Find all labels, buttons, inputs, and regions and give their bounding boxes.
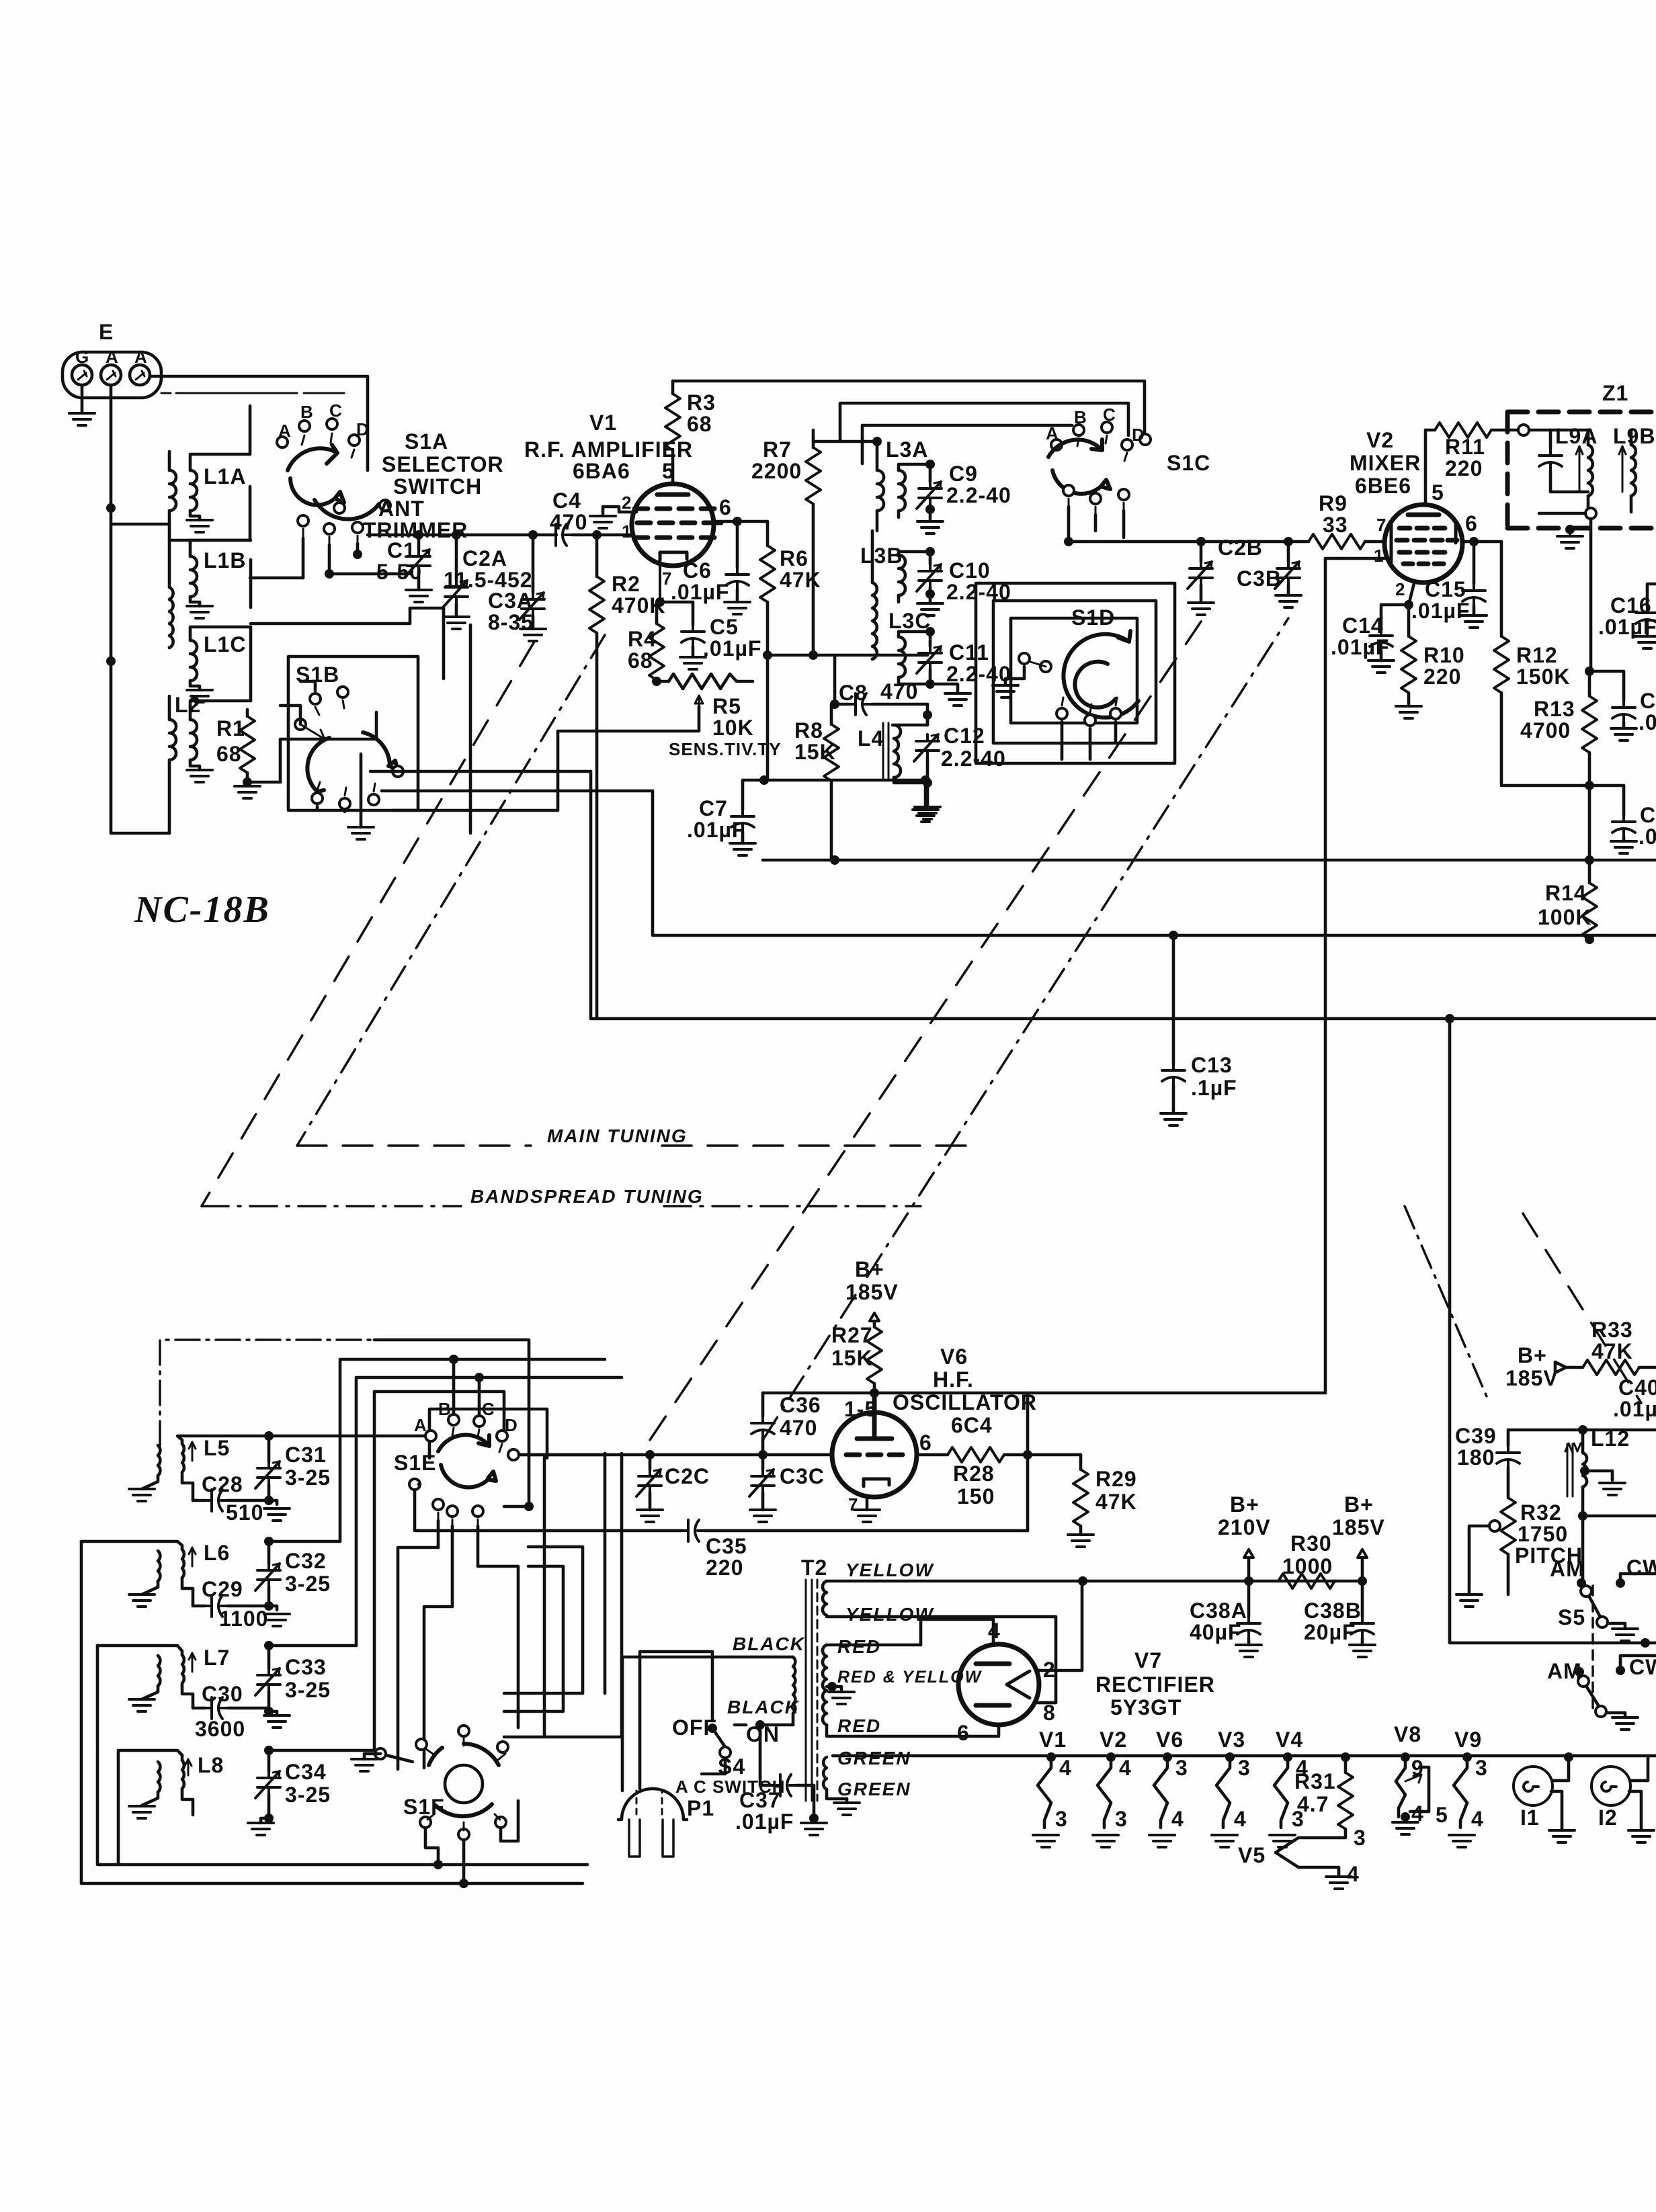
T2 primary winding bbox=[622, 1657, 795, 1725]
svg-text:C38A: C38A bbox=[1190, 1599, 1247, 1623]
trimmer C33 3-25 bbox=[267, 1646, 271, 1668]
link diag from C2A bbox=[202, 642, 534, 1206]
svg-text:RED: RED bbox=[837, 1636, 881, 1657]
selector switch S1A bbox=[277, 400, 390, 519]
svg-text:C36: C36 bbox=[780, 1393, 821, 1417]
Z1 ground bbox=[1569, 528, 1572, 534]
svg-text:6BA6: 6BA6 bbox=[573, 459, 630, 483]
svg-text:8-35: 8-35 bbox=[488, 610, 534, 634]
svg-text:C13: C13 bbox=[1191, 1053, 1233, 1077]
svg-text:V2: V2 bbox=[1366, 428, 1394, 452]
resistor R1 68 bbox=[246, 710, 249, 716]
resistor R27 15K bbox=[873, 1321, 876, 1327]
trimmer C34 3-25 bbox=[267, 1750, 271, 1771]
svg-text:6: 6 bbox=[919, 1431, 932, 1455]
svg-text:S1B: S1B bbox=[296, 663, 339, 687]
svg-text:C: C bbox=[1103, 405, 1116, 425]
svg-text:V1: V1 bbox=[589, 411, 617, 435]
svg-text:OSCILLATOR: OSCILLATOR bbox=[893, 1390, 1037, 1414]
svg-text:L5: L5 bbox=[204, 1436, 230, 1460]
svg-text:R13: R13 bbox=[1534, 697, 1575, 721]
svg-text:R.F. AMPLIFIER: R.F. AMPLIFIER bbox=[524, 437, 693, 462]
svg-text:1100: 1100 bbox=[219, 1607, 268, 1631]
node C12 bottom bbox=[923, 778, 932, 788]
V7 pin leads bbox=[921, 1619, 999, 1736]
svg-text:180: 180 bbox=[1457, 1445, 1495, 1470]
capacitor C5 .01uF bbox=[660, 602, 693, 625]
svg-text:V6: V6 bbox=[1156, 1728, 1184, 1752]
svg-text:CWO: CWO bbox=[1626, 1556, 1656, 1580]
capacitor C16 .01uF bbox=[1647, 584, 1656, 606]
B+ 185V right bbox=[1358, 1549, 1367, 1558]
svg-text:185V: 185V bbox=[845, 1280, 899, 1304]
node grid V1 bbox=[592, 530, 602, 540]
svg-text:A: A bbox=[1046, 423, 1059, 443]
svg-text:2.2-40: 2.2-40 bbox=[946, 483, 1011, 507]
svg-text:C6: C6 bbox=[683, 558, 712, 583]
svg-text:S1F: S1F bbox=[403, 1795, 445, 1819]
svg-text:GREEN: GREEN bbox=[837, 1779, 911, 1799]
svg-text:V5: V5 bbox=[1238, 1843, 1266, 1867]
tube V7 5Y3GT bbox=[958, 1644, 1039, 1725]
wires S1A contacts down bbox=[303, 538, 358, 578]
svg-text:R1: R1 bbox=[216, 716, 245, 740]
node bottom R13 bbox=[1585, 781, 1594, 790]
coil L1A bbox=[111, 452, 250, 524]
svg-text:6: 6 bbox=[1465, 511, 1478, 536]
tube V2 6BE6 bbox=[1384, 505, 1462, 583]
trimmer C11 2.2-40 bbox=[925, 627, 935, 636]
svg-text:C12: C12 bbox=[944, 724, 985, 748]
coil L2 bbox=[169, 696, 251, 833]
svg-text:S1A: S1A bbox=[405, 429, 448, 454]
B+ 210V bbox=[1244, 1549, 1253, 1558]
coil L9B bbox=[1619, 431, 1636, 512]
L12 tap ground bbox=[1580, 1466, 1589, 1476]
resistor R8 15K bbox=[830, 704, 833, 724]
svg-text:V8: V8 bbox=[1394, 1722, 1421, 1746]
node R4 bottom bbox=[652, 677, 661, 686]
svg-text:47K: 47K bbox=[780, 568, 821, 592]
pin7 ground bbox=[866, 1497, 869, 1510]
svg-text:40µF: 40µF bbox=[1190, 1620, 1242, 1644]
svg-text:C2B: C2B bbox=[1218, 536, 1263, 560]
svg-text:RED: RED bbox=[837, 1715, 881, 1736]
S4 AC switch bbox=[755, 1720, 765, 1730]
svg-text:C38B: C38B bbox=[1304, 1599, 1362, 1623]
svg-text:4: 4 bbox=[988, 1619, 1001, 1643]
svg-text:C2A: C2A bbox=[462, 546, 507, 570]
MAIN TUNING dashed line bbox=[297, 1144, 981, 1147]
svg-text:3: 3 bbox=[1175, 1756, 1188, 1780]
svg-text:L9B: L9B bbox=[1613, 424, 1655, 448]
svg-text:SENS.TIV.TY: SENS.TIV.TY bbox=[669, 739, 782, 759]
svg-text:4: 4 bbox=[1171, 1807, 1184, 1831]
svg-text:C3A: C3A bbox=[488, 589, 533, 613]
svg-text:ANT: ANT bbox=[378, 497, 425, 521]
svg-text:.01µF: .01µF bbox=[1411, 599, 1470, 623]
svg-text:B: B bbox=[300, 402, 314, 422]
svg-text:3: 3 bbox=[1055, 1807, 1068, 1831]
capacitor C6 .01uF bbox=[736, 521, 739, 568]
node L4 top bbox=[923, 710, 932, 720]
capacitor C7 .01uF bbox=[743, 780, 764, 810]
svg-text:.01µF: .01µF bbox=[1331, 635, 1389, 659]
wire dashed top loop bbox=[161, 392, 344, 394]
svg-text:L8: L8 bbox=[198, 1753, 224, 1777]
svg-text:47K: 47K bbox=[1591, 1339, 1633, 1363]
svg-text:510: 510 bbox=[226, 1500, 263, 1525]
coil L1B bbox=[169, 524, 251, 648]
svg-text:S1C: S1C bbox=[1167, 451, 1210, 475]
node bbox=[106, 656, 116, 666]
svg-text:3: 3 bbox=[1475, 1756, 1488, 1780]
svg-text:T2: T2 bbox=[801, 1556, 827, 1580]
svg-text:R28: R28 bbox=[953, 1461, 995, 1486]
trimmer C32 3-25 bbox=[267, 1541, 271, 1564]
svg-text:C7: C7 bbox=[699, 796, 728, 820]
svg-text:R5: R5 bbox=[712, 694, 741, 718]
resistor R12 150K bbox=[1500, 542, 1503, 636]
capacitor Z1 primary bbox=[1549, 430, 1552, 449]
resistor R2 470K bbox=[595, 535, 599, 577]
svg-text:4700: 4700 bbox=[1520, 718, 1571, 742]
svg-text:YELLOW: YELLOW bbox=[845, 1560, 934, 1580]
svg-text:6: 6 bbox=[719, 495, 732, 519]
capacitor C36 470 bbox=[761, 1393, 765, 1416]
coil L3B bbox=[899, 552, 930, 602]
lamp I1 bbox=[1564, 1752, 1573, 1762]
wire antenna center down left bus bbox=[111, 385, 169, 833]
trimmer C3C bbox=[758, 1450, 768, 1459]
coil L7 bbox=[97, 1646, 196, 1708]
svg-text:C1: C1 bbox=[1640, 803, 1656, 827]
link diag C3C to C3B bbox=[763, 618, 1288, 1440]
svg-text:S1D: S1D bbox=[1071, 605, 1115, 630]
pin5 lead bbox=[1424, 430, 1427, 505]
svg-text:4: 4 bbox=[1471, 1807, 1484, 1831]
trimmer C2C bbox=[645, 1450, 655, 1459]
resistor R7 2200 bbox=[812, 430, 815, 448]
svg-text:100K: 100K bbox=[1538, 905, 1592, 929]
svg-text:1: 1 bbox=[1374, 546, 1384, 566]
AVC line bbox=[764, 654, 927, 657]
resistor R11 220 bbox=[1425, 429, 1435, 432]
coil L1C bbox=[190, 627, 251, 690]
svg-text:4.7: 4.7 bbox=[1297, 1792, 1329, 1816]
svg-text:Z1: Z1 bbox=[1602, 381, 1628, 405]
bus 3 bbox=[591, 771, 1656, 1019]
T2 secondary yellow winding bbox=[823, 1581, 1083, 1617]
svg-text:.1µF: .1µF bbox=[1191, 1076, 1237, 1100]
pin6 wire bbox=[917, 1453, 948, 1457]
svg-text:.01µF: .01µF bbox=[703, 636, 761, 661]
T2 HV red winding bbox=[823, 1645, 965, 1736]
svg-text:R8: R8 bbox=[794, 718, 823, 742]
pin 5 lead bbox=[671, 450, 675, 484]
svg-text:R27: R27 bbox=[831, 1323, 873, 1347]
svg-text:R6: R6 bbox=[780, 546, 809, 570]
svg-text:C37: C37 bbox=[739, 1788, 781, 1812]
svg-text:10K: 10K bbox=[712, 716, 754, 740]
svg-text:R4: R4 bbox=[628, 627, 657, 651]
node bbox=[106, 503, 116, 513]
svg-text:B+: B+ bbox=[855, 1257, 884, 1281]
svg-text:8: 8 bbox=[1043, 1701, 1056, 1725]
wires S1B to ground loop bbox=[280, 681, 315, 724]
svg-text:R14: R14 bbox=[1545, 881, 1587, 905]
resistor R29 47K bbox=[1079, 1455, 1083, 1470]
wires S1F bottom to buses bbox=[425, 1801, 518, 1883]
coil L9A bbox=[1550, 430, 1593, 512]
trimmer C3B bbox=[1284, 537, 1293, 546]
svg-text:68: 68 bbox=[687, 412, 712, 436]
svg-text:BLACK: BLACK bbox=[727, 1697, 800, 1717]
svg-text:B: B bbox=[1074, 407, 1087, 427]
pin 6 wire bbox=[714, 520, 768, 523]
svg-text:L3A: L3A bbox=[886, 437, 928, 462]
svg-text:ON: ON bbox=[746, 1722, 780, 1746]
svg-text:7: 7 bbox=[1376, 515, 1386, 535]
svg-text:.01: .01 bbox=[1639, 824, 1656, 849]
link diag from C3A bbox=[297, 635, 605, 1146]
pin1 wire to oscillator bbox=[1325, 558, 1386, 1393]
node bbox=[353, 550, 362, 559]
svg-text:C14: C14 bbox=[1342, 613, 1384, 638]
node C7 bbox=[759, 775, 769, 785]
coil L3C bbox=[899, 632, 930, 684]
svg-text:AM: AM bbox=[1550, 1557, 1585, 1581]
svg-text:S4: S4 bbox=[718, 1754, 745, 1779]
heater bus bbox=[833, 1754, 1656, 1758]
svg-text:RECTIFIER: RECTIFIER bbox=[1095, 1672, 1215, 1697]
svg-text:L1B: L1B bbox=[204, 548, 246, 572]
node L3A top bbox=[872, 437, 882, 446]
resistor R4 68 bbox=[657, 602, 660, 624]
node C9 top bbox=[925, 460, 935, 469]
svg-text:A: A bbox=[106, 347, 119, 367]
wire R6 bottom down bbox=[766, 655, 770, 780]
svg-text:R9: R9 bbox=[1319, 491, 1348, 515]
capacitor C39 180 bbox=[1507, 1430, 1510, 1446]
svg-text:L12: L12 bbox=[1591, 1427, 1630, 1451]
svg-text:C3B: C3B bbox=[1237, 566, 1282, 591]
coil L4 bbox=[883, 715, 927, 783]
trimmer C2B bbox=[1196, 537, 1206, 546]
svg-text:L1A: L1A bbox=[204, 464, 246, 488]
svg-text:C35: C35 bbox=[706, 1534, 747, 1558]
svg-text:C1: C1 bbox=[1640, 689, 1656, 713]
resistor R30 1000 bbox=[1278, 1574, 1335, 1588]
svg-text:2200: 2200 bbox=[751, 459, 802, 483]
svg-text:5: 5 bbox=[1432, 480, 1444, 505]
svg-text:V3: V3 bbox=[1218, 1728, 1245, 1752]
svg-text:470: 470 bbox=[550, 510, 587, 534]
svg-text:GREEN: GREEN bbox=[837, 1748, 911, 1769]
svg-text:3-25: 3-25 bbox=[285, 1783, 331, 1807]
top bus R3 to S1C bbox=[673, 381, 1145, 438]
svg-text:C: C bbox=[482, 1399, 495, 1419]
trimmer C12 2.2-40 bbox=[914, 734, 939, 761]
svg-text:.01µF: .01µF bbox=[1598, 615, 1656, 639]
nested loops S1C to S1D bbox=[976, 583, 1175, 763]
tube V1 6BA6 bbox=[632, 484, 714, 566]
svg-text:150: 150 bbox=[957, 1484, 995, 1508]
wire S1E common to V6 grid bbox=[519, 1453, 832, 1457]
svg-text:C3C: C3C bbox=[780, 1464, 825, 1488]
svg-text:V4: V4 bbox=[1276, 1728, 1303, 1752]
main grid wire antenna to V1 bbox=[368, 534, 556, 537]
B+ bus wire bbox=[1083, 1580, 1362, 1583]
svg-text:20µF: 20µF bbox=[1304, 1620, 1356, 1644]
node C1 bbox=[414, 530, 423, 540]
svg-text:S1E: S1E bbox=[394, 1451, 436, 1475]
resistor R3 68 bbox=[665, 394, 680, 450]
svg-text:BLACK: BLACK bbox=[733, 1633, 805, 1654]
svg-text:B+: B+ bbox=[1518, 1343, 1547, 1367]
svg-text:220: 220 bbox=[706, 1556, 743, 1580]
svg-text:V6: V6 bbox=[940, 1345, 968, 1369]
svg-text:D: D bbox=[505, 1415, 518, 1435]
svg-text:5-50: 5-50 bbox=[376, 560, 422, 584]
svg-text:1000: 1000 bbox=[1282, 1554, 1333, 1578]
BANDSPREAD TUNING dashed line bbox=[202, 1205, 921, 1207]
wire antenna A to top bus bbox=[150, 376, 368, 470]
svg-text:C16: C16 bbox=[1610, 593, 1652, 618]
resistor R14 100K bbox=[1588, 860, 1591, 883]
plug P1 bbox=[618, 1652, 712, 1857]
svg-text:.01µF: .01µF bbox=[1613, 1397, 1656, 1421]
svg-text:E: E bbox=[99, 320, 114, 344]
svg-text:R32: R32 bbox=[1520, 1500, 1562, 1525]
wires S1C down bbox=[1069, 507, 1124, 542]
svg-text:6: 6 bbox=[957, 1721, 970, 1745]
grid top wire bbox=[763, 1392, 1325, 1395]
svg-text:C9: C9 bbox=[949, 462, 978, 486]
svg-text:R10: R10 bbox=[1423, 643, 1465, 667]
svg-text:V7: V7 bbox=[1134, 1648, 1162, 1672]
svg-text:L9A: L9A bbox=[1555, 424, 1598, 448]
wires S1E lower contacts down bbox=[438, 1521, 478, 1607]
svg-text:B: B bbox=[438, 1399, 452, 1419]
svg-text:3-25: 3-25 bbox=[285, 1678, 331, 1702]
svg-text:2.2-40: 2.2-40 bbox=[941, 747, 1006, 771]
node C3A bbox=[528, 530, 538, 540]
svg-text:C33: C33 bbox=[285, 1655, 327, 1679]
svg-text:A: A bbox=[278, 421, 292, 441]
svg-text:C31: C31 bbox=[285, 1443, 327, 1467]
coil L3A bbox=[877, 464, 930, 531]
svg-text:R29: R29 bbox=[1095, 1467, 1137, 1491]
svg-text:3600: 3600 bbox=[195, 1717, 245, 1741]
svg-text:B+: B+ bbox=[1344, 1492, 1374, 1517]
svg-text:9: 9 bbox=[1411, 1756, 1424, 1780]
resistor R28 150 bbox=[948, 1447, 1004, 1462]
trimmer C3A 8-35 bbox=[532, 535, 535, 593]
svg-text:470: 470 bbox=[780, 1416, 817, 1440]
wire loops right of S1F bbox=[544, 1453, 622, 1737]
pin2 lead bbox=[1409, 581, 1415, 605]
svg-text:SWITCH: SWITCH bbox=[393, 474, 482, 499]
resistor R10 220 bbox=[1407, 605, 1411, 636]
svg-text:C34: C34 bbox=[285, 1760, 327, 1784]
coil L5 bbox=[142, 1436, 431, 1500]
capacitor C38B 20uF bbox=[1361, 1581, 1364, 1617]
svg-text:NC-18B: NC-18B bbox=[134, 889, 270, 931]
top dash-dot wire bbox=[160, 1340, 374, 1445]
red-yellow center tap ground bbox=[827, 1682, 837, 1691]
coil L12 bbox=[1565, 1430, 1587, 1516]
svg-text:C1: C1 bbox=[387, 538, 416, 562]
svg-text:V2: V2 bbox=[1100, 1728, 1127, 1752]
left bus loops bbox=[81, 1541, 587, 1883]
svg-text:.01µF: .01µF bbox=[687, 818, 745, 842]
svg-text:L1C: L1C bbox=[204, 632, 246, 656]
capacitor C17 .01uF bbox=[1589, 671, 1624, 701]
ground L1C bbox=[187, 690, 212, 702]
svg-text:L3B: L3B bbox=[860, 544, 903, 568]
svg-text:.01µF: .01µF bbox=[735, 1810, 794, 1834]
svg-text:R11: R11 bbox=[1445, 435, 1485, 459]
svg-text:5: 5 bbox=[662, 459, 675, 483]
switch S1C bbox=[1046, 405, 1151, 494]
capacitor C38A 40uF bbox=[1247, 1581, 1251, 1617]
svg-text:C10: C10 bbox=[949, 558, 991, 583]
svg-text:BANDSPREAD TUNING: BANDSPREAD TUNING bbox=[470, 1186, 704, 1207]
svg-text:C30: C30 bbox=[202, 1682, 243, 1706]
svg-text:C11: C11 bbox=[949, 640, 989, 665]
svg-text:L3C: L3C bbox=[888, 609, 931, 633]
lamp I2 bbox=[1591, 1767, 1630, 1805]
svg-text:I2: I2 bbox=[1598, 1805, 1618, 1830]
wire top L12 bbox=[1508, 1429, 1656, 1432]
bus 2 bbox=[653, 791, 1656, 935]
svg-text:470: 470 bbox=[880, 679, 918, 704]
antenna terminal strip E-A-A bbox=[63, 320, 161, 398]
capacitor C4 470 bbox=[549, 524, 572, 546]
svg-text:33: 33 bbox=[1323, 513, 1348, 537]
svg-text:C28: C28 bbox=[202, 1472, 243, 1496]
svg-text:3: 3 bbox=[1115, 1807, 1128, 1831]
svg-text:47K: 47K bbox=[1095, 1490, 1137, 1514]
ground R1 bbox=[235, 786, 260, 798]
svg-text:5: 5 bbox=[1436, 1803, 1448, 1827]
svg-text:2.2-40: 2.2-40 bbox=[946, 662, 1011, 686]
svg-text:C4: C4 bbox=[552, 488, 581, 513]
svg-text:G: G bbox=[75, 347, 89, 367]
svg-text:R2: R2 bbox=[612, 572, 640, 596]
trimmer C31 3-25 bbox=[264, 1431, 274, 1441]
resistor R13 4700 bbox=[1588, 671, 1591, 696]
ground L1A bbox=[187, 520, 212, 532]
third top wire bbox=[862, 425, 1072, 464]
svg-text:C8: C8 bbox=[839, 681, 868, 705]
svg-text:C: C bbox=[329, 400, 343, 421]
svg-text:S5: S5 bbox=[1558, 1605, 1585, 1629]
S1A lower wafer contacts bbox=[298, 503, 363, 545]
ground L2 bbox=[187, 770, 212, 782]
loop wires selector to coils bbox=[169, 406, 410, 701]
S1F left ground contact bbox=[375, 1748, 386, 1759]
trimmer C2A 11.5-452 bbox=[455, 535, 458, 581]
svg-text:15K: 15K bbox=[831, 1346, 873, 1370]
svg-text:3: 3 bbox=[1354, 1826, 1366, 1850]
coil L8 bbox=[118, 1750, 193, 1815]
wire junction up and C35 bbox=[1026, 1393, 1030, 1531]
capacitor C15 .01uF bbox=[1473, 542, 1476, 584]
svg-text:B+: B+ bbox=[1230, 1492, 1259, 1517]
svg-text:68: 68 bbox=[628, 648, 653, 673]
